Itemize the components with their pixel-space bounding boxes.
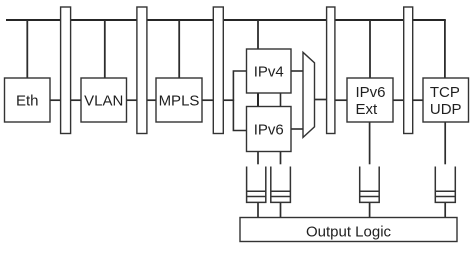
fifo 2: [271, 167, 291, 203]
register bar 4: [327, 7, 335, 134]
wire IPv4 to IPv6 left: [257, 93, 259, 107]
block IPv6: [247, 107, 292, 152]
fifo 4: [435, 167, 455, 203]
wire mux to register4: [315, 99, 327, 101]
wire IPv4 to IPv6 right: [280, 93, 282, 107]
wire bus to VLAN: [104, 20, 106, 78]
block IPv6 Ext: [347, 78, 393, 122]
register bar 5: [404, 7, 413, 134]
wire Eth to register1: [50, 99, 61, 101]
wire bus to Eth: [26, 20, 28, 78]
wire IPv6 Ext to register5: [393, 99, 404, 101]
wire IPv4 to mux: [291, 70, 303, 72]
wire register5 to TCP UDP: [413, 99, 423, 101]
wire fifo3 to output logic: [369, 202, 371, 217]
svg-text:IPv6: IPv6: [254, 121, 284, 138]
wire IPv6 to fifo1: [257, 152, 259, 165]
fifo 1: [247, 167, 266, 203]
wire fifo4 to output logic: [444, 202, 446, 217]
bus wire: [6, 19, 446, 21]
wire register1 to VLAN: [71, 99, 81, 101]
wire TCP UDP to fifo4: [444, 122, 446, 164]
svg-text:VLAN: VLAN: [84, 93, 123, 110]
wire register4 to IPv6 Ext: [335, 99, 347, 101]
register bar 1: [61, 7, 71, 134]
node IP branch bracket: [233, 71, 246, 131]
wire bus to MPLS: [178, 20, 180, 78]
register bar 2: [137, 7, 147, 134]
svg-text:UDP: UDP: [430, 101, 462, 118]
fifo 3: [360, 167, 380, 203]
wire bus to IPv6 Ext: [369, 20, 371, 78]
wire register2 to MPLS: [147, 99, 156, 101]
wire bus to IPv4: [257, 20, 259, 49]
wire register3 to IP branch: [223, 99, 234, 101]
block Output Logic: [240, 218, 457, 242]
svg-text:Output Logic: Output Logic: [306, 224, 392, 241]
svg-text:MPLS: MPLS: [159, 93, 200, 110]
wire IPv6 Ext to fifo3: [369, 122, 371, 164]
svg-text:IPv6: IPv6: [356, 84, 386, 101]
wire fifo1 to output logic: [257, 202, 259, 217]
svg-text:Eth: Eth: [16, 93, 39, 110]
wire IPv6 to fifo2: [280, 152, 282, 165]
block Eth: [5, 78, 51, 122]
wire MPLS to register3: [202, 99, 213, 101]
wire VLAN to register2: [127, 99, 137, 101]
wire fifo2 to output logic: [280, 202, 282, 217]
block VLAN: [81, 78, 127, 122]
block IPv4: [247, 49, 292, 93]
block MPLS: [156, 78, 202, 122]
register bar 3: [213, 7, 223, 134]
block TCP UDP: [423, 78, 469, 122]
svg-text:TCP: TCP: [430, 84, 460, 101]
wire bus to TCP UDP: [444, 20, 446, 78]
mux U1: [303, 52, 315, 137]
wire IPv6 to mux: [291, 128, 303, 130]
svg-text:IPv4: IPv4: [254, 63, 284, 80]
svg-text:Ext: Ext: [356, 101, 379, 118]
